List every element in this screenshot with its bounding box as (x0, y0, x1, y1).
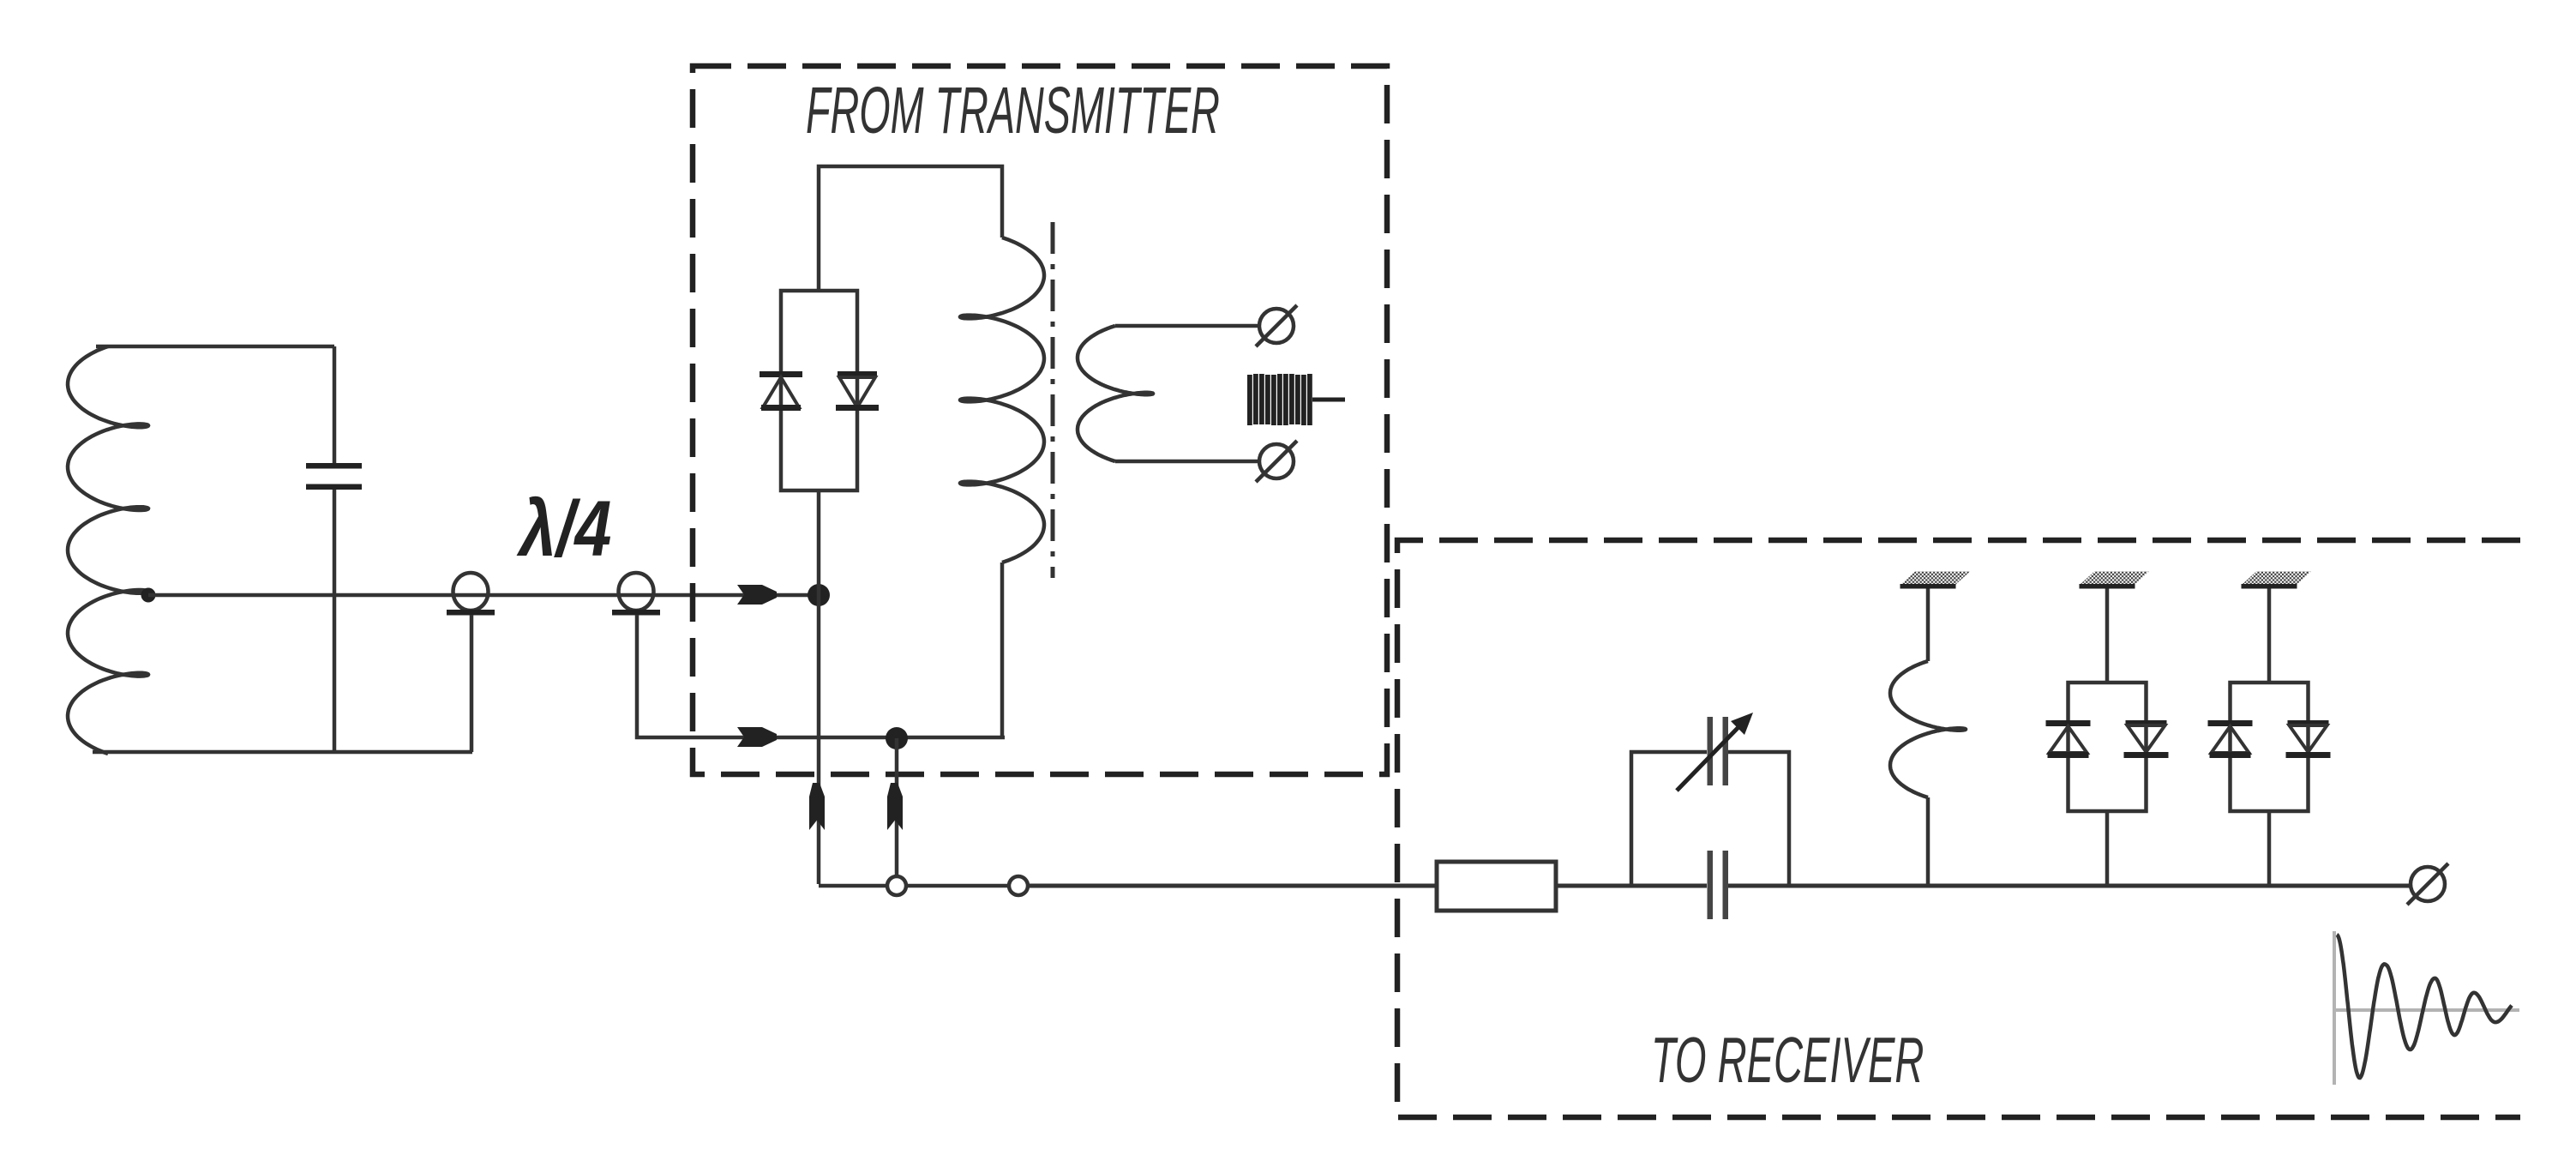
wire leg corner to receiver line (819, 884, 886, 888)
variable capacitor C3 plates (1708, 717, 1729, 785)
wire diode pair 2 upper (2267, 585, 2272, 683)
arrow on lower feedline (737, 727, 777, 747)
variable capacitor C3 arrow (1677, 713, 1753, 791)
wire receiver line segment 2 (1028, 884, 1437, 888)
connector ring on receiver line (right) (1009, 876, 1028, 895)
wire receiver line segment 3 (1556, 884, 1707, 888)
wire upper feedline (lambda/4) (148, 593, 816, 598)
wire diode pair 2 lower (2267, 811, 2272, 886)
terminal bushing X1 (447, 573, 495, 616)
node B (lower line / receiver leg) (886, 727, 908, 749)
capacitor C1 (306, 463, 362, 490)
capacitor C2 (series, on line) (1708, 851, 1729, 919)
dashed box TO RECEIVER (1397, 540, 2520, 1117)
damped oscillation waveform (2337, 935, 2512, 1078)
ground (chassis) for diode pair 1 (2080, 572, 2150, 589)
dashed box FROM TRANSMITTER (693, 66, 1387, 774)
rf choke (solid winding) (1247, 374, 1345, 425)
wire C1 bottom lead (333, 490, 337, 752)
wire variable-capacitor bypass loop (1631, 752, 1789, 886)
damped oscillation graph axes (2334, 931, 2519, 1085)
arrow up on receiver leg (887, 783, 903, 830)
wire bottom rail (93, 750, 472, 755)
wire X1 drop (470, 615, 474, 752)
transformer T1 core (1051, 222, 1055, 578)
wire receiver line segment 1 (906, 884, 1009, 888)
wire diode box bottom leg (817, 490, 821, 884)
transformer T1 primary winding (960, 238, 1044, 562)
svg-text:TO RECEIVER: TO RECEIVER (1651, 1025, 1924, 1097)
wire lower feedline (637, 615, 1005, 737)
ground (chassis) for L2 (1900, 572, 1971, 589)
terminal bushing X2 (612, 573, 660, 616)
svg-text:λ/4: λ/4 (516, 485, 611, 574)
terminal to receiver (phase) (2407, 863, 2448, 905)
connector ring on receiver line (left) (887, 876, 906, 895)
wire diode pair 1 upper (2105, 585, 2110, 683)
terminal bottom (phase) of secondary (1256, 441, 1297, 482)
diode VD1b (anode down) (836, 371, 879, 411)
resistor R1 (1437, 862, 1556, 911)
wire C1 top lead (333, 346, 337, 464)
wire secondary top lead (1115, 324, 1259, 328)
wire secondary bottom lead (1115, 460, 1259, 464)
wire inductor branch lower (1926, 797, 1930, 886)
diode pair box VD1 (781, 291, 857, 490)
transformer T1 secondary winding (1078, 326, 1153, 461)
diode VD1a (anode up) (760, 371, 802, 411)
wire receiver line segment 4 (1728, 884, 2410, 888)
wire L1 top to C1 (96, 345, 334, 349)
inductor L1 (antenna coil) (68, 346, 148, 754)
wire diode pair 1 lower (2105, 811, 2110, 886)
arrow up on diode leg (809, 783, 825, 830)
wire node B to receiver line (895, 738, 899, 876)
node tap on L1 (141, 588, 156, 603)
arrow on upper feedline (737, 585, 777, 605)
terminal top (phase) of secondary (1256, 305, 1297, 346)
diode pair VD2 (back-to-back) (2046, 683, 2169, 811)
ground (chassis) for diode pair 2 (2242, 572, 2312, 589)
wire inductor branch upper (1926, 585, 1930, 661)
wire primary bottom (1000, 562, 1005, 737)
node A (upper line / diode leg) (808, 584, 830, 606)
svg-text:FROM TRANSMITTER: FROM TRANSMITTER (806, 74, 1220, 147)
wire diode box top to primary (819, 166, 1002, 291)
diode pair VD3 (back-to-back) (2208, 683, 2331, 811)
inductor L2 (to ground) (1890, 661, 1966, 797)
